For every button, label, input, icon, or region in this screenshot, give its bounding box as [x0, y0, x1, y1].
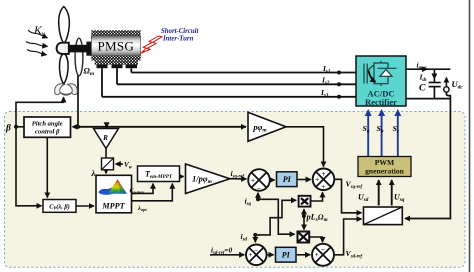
svg-text:Inter-Turn: Inter-Turn [162, 36, 194, 43]
svg-text:+: + [321, 170, 325, 178]
svg-text:−: − [257, 185, 261, 193]
svg-text:R: R [102, 134, 108, 142]
svg-text:gneneration: gneneration [365, 167, 405, 176]
svg-text:+: + [251, 176, 255, 184]
svg-text:−: − [254, 246, 258, 254]
svg-text:+: + [321, 183, 325, 191]
svg-text:β: β [5, 124, 11, 134]
svg-text:Cp-max: Cp-max [130, 188, 145, 194]
svg-text:Pitch angle: Pitch angle [32, 121, 63, 128]
svg-text:PI: PI [283, 175, 292, 184]
svg-text:control β: control β [35, 129, 60, 136]
svg-text:+: + [248, 251, 252, 259]
svg-text:+: + [315, 251, 319, 259]
svg-text:MPPT: MPPT [101, 202, 125, 211]
svg-text:CP(λ, β): CP(λ, β) [49, 203, 70, 210]
svg-text:PMSG: PMSG [97, 39, 134, 54]
svg-text:−: − [321, 246, 325, 254]
svg-text:C: C [419, 84, 426, 94]
svg-text:λ: λ [91, 168, 96, 178]
svg-text:Rectifier: Rectifier [365, 97, 397, 107]
svg-text:PI: PI [282, 251, 291, 260]
svg-text:Short-Circuit: Short-Circuit [161, 28, 200, 35]
svg-text:+: + [315, 176, 319, 184]
